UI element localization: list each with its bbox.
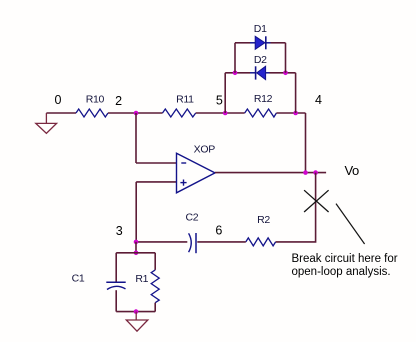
svg-text:D2: D2	[254, 54, 267, 66]
svg-text:Break circuit here for: Break circuit here for	[292, 253, 398, 265]
svg-text:C2: C2	[185, 211, 198, 223]
svg-text:2: 2	[115, 94, 122, 108]
svg-text:3: 3	[116, 224, 123, 238]
wire D1 rail left segment	[235, 42, 250, 44]
wire R11 to R12 through node 5	[196, 112, 245, 114]
wire R12 to corner right of node 4	[276, 112, 305, 114]
resistor R12	[245, 109, 277, 117]
wire output down through break to R2 corner	[276, 173, 316, 242]
junction dot tank top	[134, 251, 139, 256]
svg-text:5: 5	[216, 94, 223, 108]
svg-text:C1: C1	[72, 273, 85, 285]
wire D2 rail right segment	[270, 72, 296, 74]
wire corner from node 4 down to output line	[305, 113, 307, 173]
break mark X	[304, 190, 329, 212]
junction dot output feedback right	[313, 170, 318, 175]
svg-text:6: 6	[215, 224, 222, 238]
wire C1 branch upper	[115, 253, 117, 282]
junction dot output feedback left	[303, 170, 308, 175]
resistor R1	[151, 270, 159, 303]
svg-text:R1: R1	[135, 273, 148, 285]
wire D1 loop right vertical	[285, 43, 287, 73]
svg-text:R11: R11	[176, 94, 194, 106]
node 3 junction dot	[134, 240, 139, 245]
wire main line left segment node0 to R10	[46, 112, 76, 114]
svg-text:Vo: Vo	[345, 163, 359, 178]
svg-text:4: 4	[315, 93, 322, 107]
wire R1 branch lower	[154, 303, 156, 312]
wire node 3 down to tank top rail	[135, 242, 137, 253]
svg-text:open-loop analysis.: open-loop analysis.	[292, 266, 391, 278]
wire tank bottom rail	[116, 311, 155, 313]
ground (left, node 0)	[36, 113, 57, 133]
wire D2 rail left segment	[225, 72, 250, 74]
capacitor C1	[106, 282, 125, 289]
wire R10 to node 2	[108, 112, 163, 114]
svg-text:R2: R2	[257, 214, 270, 226]
wire node 2 down to inverting input	[135, 113, 137, 163]
wire tank top rail	[116, 252, 155, 254]
svg-text:XOP: XOP	[194, 143, 216, 155]
wire C1 branch lower	[115, 290, 117, 311]
wire node 5 up to D2 rail	[224, 73, 226, 113]
wire plus input down to node 3	[135, 182, 137, 242]
svg-text:0: 0	[55, 93, 62, 107]
capacitor C2	[189, 233, 196, 253]
wire op-amp output to Vo	[215, 172, 326, 174]
diode D1	[250, 36, 271, 49]
resistor R11	[163, 109, 196, 117]
diode D2	[250, 66, 270, 79]
wire C2 to R2	[197, 241, 246, 243]
junction dot D1 loop left	[233, 71, 238, 76]
wire into op-amp plus input	[136, 181, 176, 183]
svg-text:D1: D1	[254, 23, 267, 35]
node 5 junction dot	[223, 111, 228, 116]
resistor R10	[76, 109, 108, 117]
node 4 junction dot	[293, 111, 298, 116]
wire R1 branch upper	[154, 253, 156, 270]
wire D1 loop left vertical	[234, 43, 236, 73]
junction dot tank bottom	[134, 309, 139, 314]
svg-text:R12: R12	[254, 93, 273, 105]
ground (bottom)	[126, 312, 148, 332]
annotation pointer line	[336, 204, 365, 244]
wire D1 rail right segment	[271, 42, 286, 44]
junction dot D1 loop right	[283, 71, 288, 76]
wire node 4 up to D2 rail	[295, 73, 297, 113]
node 2 junction dot	[134, 111, 139, 116]
wire node 3 to C2	[136, 241, 187, 243]
resistor R2	[246, 238, 276, 246]
svg-text:R10: R10	[86, 94, 105, 106]
wire into op-amp minus input	[136, 162, 177, 164]
op-amp U1 XOP	[177, 153, 216, 193]
